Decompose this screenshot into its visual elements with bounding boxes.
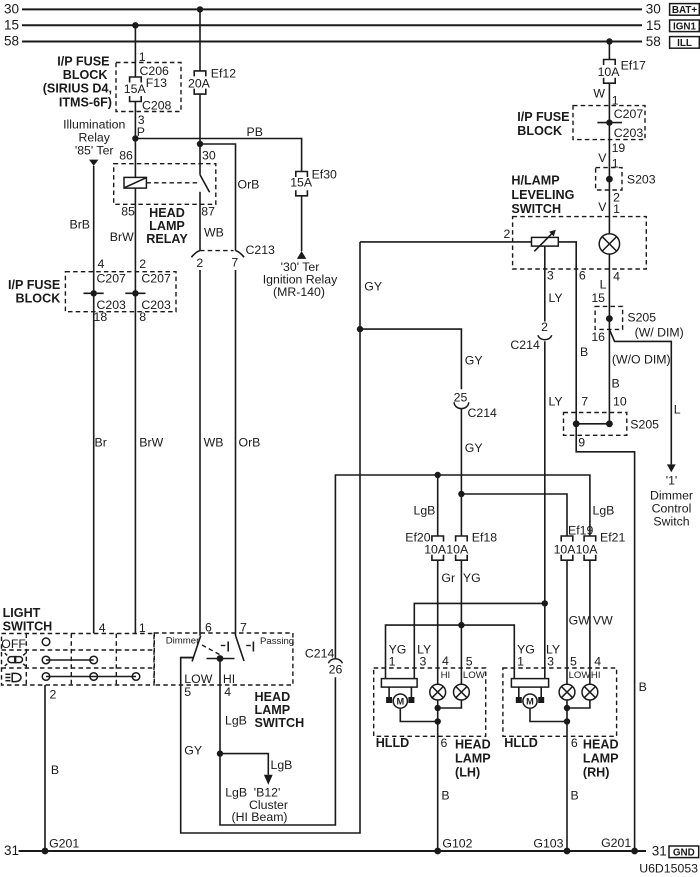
lamp LH LOW xyxy=(454,684,470,700)
svg-text:19: 19 xyxy=(612,141,626,155)
node BAT+ xyxy=(670,4,700,16)
wire Ef12 to relay pin 30 xyxy=(199,94,201,175)
svg-text:LOW: LOW xyxy=(569,670,592,681)
svg-text:Ef30: Ef30 xyxy=(312,167,337,181)
svg-text:Dimmer: Dimmer xyxy=(166,635,200,646)
svg-text:LY: LY xyxy=(549,395,563,409)
splice S203 xyxy=(596,168,656,190)
svg-text:B: B xyxy=(580,345,588,359)
svg-text:Control: Control xyxy=(652,502,692,516)
svg-text:30: 30 xyxy=(202,148,216,162)
wire LY C214-2 to lamps pin 3 xyxy=(545,291,563,679)
svg-text:V: V xyxy=(598,200,607,214)
bus 15 xyxy=(4,17,661,32)
svg-text:C207: C207 xyxy=(614,107,644,121)
wire LgB to B12 cluster xyxy=(220,754,292,775)
svg-text:LY: LY xyxy=(549,291,563,305)
svg-text:Ef12: Ef12 xyxy=(211,67,236,81)
svg-text:F13: F13 xyxy=(146,76,167,90)
I/P fuse block (left) dashed box xyxy=(8,272,176,312)
svg-text:PB: PB xyxy=(247,125,263,139)
svg-text:BrW: BrW xyxy=(139,436,163,450)
h/lamp leveling switch box xyxy=(503,217,646,284)
svg-text:(MR-140): (MR-140) xyxy=(273,285,325,299)
svg-text:LAMP: LAMP xyxy=(583,752,619,766)
svg-text:G201: G201 xyxy=(49,837,79,851)
node P junction xyxy=(132,135,138,141)
fuse Ef17 10A xyxy=(598,59,646,84)
svg-text:IGN1: IGN1 xyxy=(673,21,697,32)
svg-text:G103: G103 xyxy=(533,837,563,851)
lamp leveling illumination xyxy=(599,234,619,254)
svg-text:BLOCK: BLOCK xyxy=(16,292,61,306)
svg-text:(HI Beam): (HI Beam) xyxy=(232,810,288,824)
I/P fuse block (right) dashed box xyxy=(517,106,645,140)
svg-text:(LH): (LH) xyxy=(455,765,480,779)
wire B S205 to S205 pin 10 (W/O DIM) xyxy=(609,319,670,424)
svg-text:H/LAMP: H/LAMP xyxy=(511,174,559,188)
labels LOW HI 5 4 xyxy=(184,672,235,699)
svg-text:2: 2 xyxy=(541,320,548,334)
svg-text:15: 15 xyxy=(4,17,19,32)
dimmer switch blade xyxy=(192,636,201,662)
svg-text:W: W xyxy=(593,86,605,100)
svg-text:86: 86 xyxy=(119,148,133,162)
svg-text:20A: 20A xyxy=(188,76,211,90)
connector C214 pin 2 xyxy=(510,320,551,352)
light switch row parking contacts xyxy=(42,656,97,664)
svg-text:C203: C203 xyxy=(614,126,644,140)
wire L lamp to S205 xyxy=(591,254,609,319)
svg-text:4: 4 xyxy=(224,685,231,699)
wire V S203 to leveling switch xyxy=(598,179,620,234)
node GY branch xyxy=(357,326,363,332)
svg-text:2: 2 xyxy=(503,227,510,241)
svg-text:RELAY: RELAY xyxy=(146,232,188,246)
svg-text:BLOCK: BLOCK xyxy=(63,68,108,82)
head lamp LH box xyxy=(374,668,491,779)
connector C207/C203 pin 4-18 xyxy=(84,257,127,324)
svg-text:GND: GND xyxy=(673,847,695,858)
wire GW Ef19 to RH LOW lamp xyxy=(567,560,590,684)
wire Ef30 to ignition relay arrow xyxy=(301,196,303,251)
wire YG to motor pins 1 xyxy=(386,625,515,679)
connector C214 pin 25 xyxy=(454,390,497,419)
wire OrB C213 to passing xyxy=(236,270,261,636)
wire BrB illumination to C207 xyxy=(70,166,94,291)
lamp RH HI xyxy=(582,684,598,700)
svg-text:GY: GY xyxy=(364,279,382,293)
wire LH lamp commons to pin 6 xyxy=(435,700,462,851)
svg-text:5: 5 xyxy=(570,654,577,668)
svg-text:31: 31 xyxy=(4,843,19,858)
svg-text:L: L xyxy=(674,403,681,417)
svg-text:(W/O DIM): (W/O DIM) xyxy=(612,353,671,367)
HLLD motor RH xyxy=(511,679,548,709)
svg-text:C207: C207 xyxy=(97,271,127,285)
svg-text:G201: G201 xyxy=(601,836,631,850)
svg-text:Ef21: Ef21 xyxy=(600,530,625,544)
wire low beam to Ef19 xyxy=(461,494,567,536)
wire GY C214-25 down xyxy=(461,408,482,494)
svg-text:BLOCK: BLOCK xyxy=(517,124,562,138)
relay contact blade 30-87 xyxy=(200,175,210,251)
svg-text:3: 3 xyxy=(547,654,554,668)
svg-text:16: 16 xyxy=(591,330,605,344)
wire 58-bus to fuse Ef17 xyxy=(606,38,612,59)
svg-text:Illumination: Illumination xyxy=(63,117,125,131)
svg-text:10A: 10A xyxy=(576,542,599,556)
svg-text:1: 1 xyxy=(613,202,620,216)
wire YG Ef18 to lamps pin 1/5 xyxy=(461,560,480,684)
label '1' Dimmer Control Switch xyxy=(650,474,693,529)
node OrB branch junction xyxy=(197,141,203,147)
connector C214 pin 26 xyxy=(305,646,343,676)
svg-text:6: 6 xyxy=(205,621,212,635)
svg-text:S203: S203 xyxy=(627,172,656,186)
wire motor RH to pin 6 xyxy=(530,709,567,722)
passing contact mark xyxy=(246,642,253,652)
svg-text:LOW: LOW xyxy=(463,670,486,681)
wire Br fuse block to light switch pin 4 xyxy=(94,291,107,634)
light switch dashed grid xyxy=(2,634,155,686)
svg-text:6: 6 xyxy=(441,736,448,750)
fuse Ef18 10A xyxy=(446,530,497,560)
svg-text:4: 4 xyxy=(99,621,106,635)
svg-text:15: 15 xyxy=(591,291,605,305)
svg-text:LgB: LgB xyxy=(414,504,436,518)
svg-text:HEAD: HEAD xyxy=(149,206,185,220)
svg-text:BAT+: BAT+ xyxy=(672,5,698,16)
ground G201 right xyxy=(601,836,638,854)
svg-text:HI: HI xyxy=(591,670,601,681)
svg-text:C213: C213 xyxy=(246,243,276,257)
svg-text:30: 30 xyxy=(646,2,661,17)
svg-text:HI: HI xyxy=(441,670,451,681)
svg-text:18: 18 xyxy=(94,310,108,324)
svg-text:3: 3 xyxy=(420,654,427,668)
svg-text:Passing: Passing xyxy=(260,636,294,647)
svg-text:B: B xyxy=(441,788,449,802)
potentiometer leveling xyxy=(532,230,559,252)
svg-text:LgB: LgB xyxy=(225,714,247,728)
svg-text:OrB: OrB xyxy=(238,178,260,192)
svg-text:4: 4 xyxy=(442,654,449,668)
svg-text:'1': '1' xyxy=(666,474,678,488)
wire GY light switch to pin 2 xyxy=(360,241,532,243)
svg-text:C214: C214 xyxy=(468,406,498,420)
dimmer HI contact mark xyxy=(221,642,228,652)
wire light switch pin 2 to G201 xyxy=(45,685,59,851)
svg-text:SWITCH: SWITCH xyxy=(511,202,561,216)
head lamp switch box xyxy=(154,621,294,685)
svg-text:LAMP: LAMP xyxy=(455,752,491,766)
svg-text:S205: S205 xyxy=(630,417,659,431)
HLLD motor LH xyxy=(381,679,417,709)
arrow to '1' dimmer control switch xyxy=(667,464,676,472)
icon parking lamps xyxy=(5,653,26,666)
wire WB C213 to dimmer xyxy=(200,270,223,636)
head lamp LH pin labels xyxy=(389,643,486,682)
wire 15-bus to fuse F13 xyxy=(132,22,146,77)
svg-text:YG: YG xyxy=(463,571,481,585)
svg-text:7: 7 xyxy=(240,621,247,635)
svg-text:C214: C214 xyxy=(510,338,540,352)
svg-text:1: 1 xyxy=(139,621,146,635)
wire pot pin 3 xyxy=(544,246,546,321)
connector C207/C203 pin 2-8 xyxy=(125,257,171,324)
svg-text:9: 9 xyxy=(578,436,585,450)
svg-text:U6D15053: U6D15053 xyxy=(639,861,698,875)
splice S205 (W/ DIM) xyxy=(591,306,683,344)
relay mechanical link (dashed) xyxy=(146,182,199,184)
fuse Ef20 10A xyxy=(405,530,447,560)
svg-text:1: 1 xyxy=(517,654,524,668)
svg-text:B: B xyxy=(639,680,647,694)
wire VW Ef21 to RH HI lamp xyxy=(590,560,613,684)
lamp RH LOW xyxy=(559,684,575,700)
svg-text:4: 4 xyxy=(98,257,105,271)
svg-text:ITMS-6F): ITMS-6F) xyxy=(59,95,112,109)
arrow to B12 cluster xyxy=(264,775,273,785)
svg-text:GY: GY xyxy=(465,354,483,368)
svg-text:30: 30 xyxy=(4,1,19,16)
wire Ef18 feed xyxy=(460,494,462,536)
label '30' Ter Ignition Relay (MR-140) xyxy=(263,260,338,299)
svg-text:Ef17: Ef17 xyxy=(621,59,646,73)
ground G201 left xyxy=(42,837,80,855)
svg-text:15A: 15A xyxy=(290,175,313,189)
head lamp RH pin labels xyxy=(517,643,601,682)
svg-text:Ef18: Ef18 xyxy=(472,530,497,544)
svg-text:SWITCH: SWITCH xyxy=(3,620,53,634)
wire GY loop: low contact to leveling pin 2 xyxy=(181,242,382,833)
label I/P FUSE BLOCK (SIRIUS D4, ITMS-6F) xyxy=(43,55,112,110)
svg-text:OrB: OrB xyxy=(239,436,261,450)
head lamp relay box xyxy=(114,148,216,246)
lamp LH HI xyxy=(430,684,446,700)
svg-text:V: V xyxy=(598,151,607,165)
svg-text:LIGHT: LIGHT xyxy=(3,606,41,620)
svg-text:2: 2 xyxy=(50,687,57,701)
svg-text:M: M xyxy=(526,697,534,707)
svg-text:BrW: BrW xyxy=(110,230,134,244)
svg-text:87: 87 xyxy=(201,205,215,219)
svg-text:58: 58 xyxy=(4,34,19,49)
bus 30 xyxy=(4,1,661,16)
node GND xyxy=(669,846,699,858)
svg-text:GY: GY xyxy=(465,441,483,455)
wire PB xyxy=(135,125,301,172)
svg-text:10: 10 xyxy=(613,395,627,409)
ground G102 xyxy=(434,837,472,855)
light switch row OFF contact xyxy=(42,638,50,646)
bus 58 xyxy=(4,34,661,50)
svg-text:25: 25 xyxy=(454,390,468,404)
svg-text:15A: 15A xyxy=(124,82,147,96)
svg-text:LAMP: LAMP xyxy=(255,703,291,717)
node IGN1 xyxy=(670,20,700,32)
svg-text:SWITCH: SWITCH xyxy=(255,716,305,730)
svg-text:Switch: Switch xyxy=(653,515,689,529)
svg-text:Gr: Gr xyxy=(441,571,455,585)
wire RH lamp commons to pin 6 xyxy=(564,700,590,851)
svg-text:C207: C207 xyxy=(141,271,171,285)
light switch pin labels 4 and 1 xyxy=(99,621,146,635)
svg-text:Dimmer: Dimmer xyxy=(650,489,693,503)
svg-text:L: L xyxy=(600,278,607,292)
svg-text:LEVELING: LEVELING xyxy=(511,188,574,202)
wire 30-bus to fuse Ef12 xyxy=(197,6,203,71)
svg-text:C214: C214 xyxy=(305,646,335,660)
wire HI beam bus xyxy=(335,475,590,659)
svg-text:HLLD: HLLD xyxy=(376,736,410,750)
svg-text:58: 58 xyxy=(646,34,661,49)
svg-text:HEAD: HEAD xyxy=(455,737,491,751)
label LIGHT SWITCH xyxy=(3,606,53,634)
svg-text:GW: GW xyxy=(569,614,591,628)
wire pot pin 6 xyxy=(558,242,576,424)
arrow from Illumination Relay xyxy=(89,160,98,166)
svg-text:'85' Ter: '85' Ter xyxy=(75,144,114,158)
svg-text:6: 6 xyxy=(571,736,578,750)
svg-text:4: 4 xyxy=(613,269,620,283)
svg-text:WB: WB xyxy=(204,436,224,450)
relay coil xyxy=(124,139,146,189)
svg-text:HLLD: HLLD xyxy=(504,736,538,750)
wire fuse F13 to node P xyxy=(135,102,145,140)
svg-text:(SIRIUS D4,: (SIRIUS D4, xyxy=(43,82,112,96)
fuse Ef19 10A xyxy=(554,523,594,560)
svg-text:7: 7 xyxy=(581,395,588,409)
svg-text:7: 7 xyxy=(231,256,238,270)
wire B S205 pin 9 to G201 xyxy=(576,424,634,851)
node Ef20 feed xyxy=(435,472,441,536)
svg-text:10A: 10A xyxy=(554,542,577,556)
ground G103 xyxy=(533,837,570,855)
wire Gr Ef20 to LH HI lamp xyxy=(438,560,455,684)
svg-text:2: 2 xyxy=(139,257,146,271)
svg-text:I/P FUSE: I/P FUSE xyxy=(57,55,109,69)
svg-text:6: 6 xyxy=(579,268,586,282)
svg-text:5: 5 xyxy=(466,654,473,668)
svg-text:(W/ DIM): (W/ DIM) xyxy=(635,326,684,340)
svg-text:LgB: LgB xyxy=(271,758,293,772)
label HEAD LAMP SWITCH xyxy=(255,690,305,730)
svg-text:GY: GY xyxy=(184,744,202,758)
svg-text:B: B xyxy=(571,788,579,802)
svg-text:Br: Br xyxy=(95,436,107,450)
node B12 branch xyxy=(217,750,223,756)
svg-text:HEAD: HEAD xyxy=(583,737,619,751)
svg-text:26: 26 xyxy=(329,663,343,677)
svg-text:(RH): (RH) xyxy=(583,765,610,779)
svg-text:10A: 10A xyxy=(424,542,447,556)
wire W Ef17 to C207 xyxy=(593,83,618,122)
arrow to '30' Ter Ignition Relay xyxy=(297,251,306,259)
fuse Ef12 20A xyxy=(188,67,236,95)
wire V C203 to S203 xyxy=(598,123,625,180)
node GY low-beam split xyxy=(458,491,464,497)
svg-text:BrB: BrB xyxy=(70,217,91,231)
icon headlamp xyxy=(5,673,21,681)
svg-text:4: 4 xyxy=(594,654,601,668)
svg-text:OFF: OFF xyxy=(1,637,26,651)
svg-text:C208: C208 xyxy=(142,98,172,112)
wire L to dimmer control switch (W/ DIM) xyxy=(609,330,680,465)
passing switch blade xyxy=(236,636,245,662)
svg-text:85: 85 xyxy=(121,205,135,219)
fuse Ef30 15A xyxy=(290,167,337,196)
fuse Ef21 10A xyxy=(576,530,626,560)
wire LgB HI: dimmer to C214 pin 26 xyxy=(220,659,335,826)
svg-text:8: 8 xyxy=(139,310,146,324)
svg-text:B: B xyxy=(51,763,59,777)
svg-text:10A: 10A xyxy=(598,65,621,79)
svg-text:3: 3 xyxy=(547,268,554,282)
svg-text:2: 2 xyxy=(196,256,203,270)
wire OrB branch to C213 xyxy=(200,144,259,251)
I/P fuse block (SIRIUS) dashed box xyxy=(116,63,181,112)
wire motor LH to pin 6 xyxy=(400,709,437,722)
wire BrW relay 85 down xyxy=(110,188,136,633)
connector C213 xyxy=(191,243,275,270)
svg-text:31: 31 xyxy=(652,843,667,858)
svg-text:1: 1 xyxy=(389,654,396,668)
svg-text:5: 5 xyxy=(184,685,191,699)
svg-text:M: M xyxy=(396,697,404,707)
label H/LAMP LEVELING SWITCH xyxy=(511,174,574,216)
svg-text:I/P FUSE: I/P FUSE xyxy=(517,110,569,124)
svg-text:1: 1 xyxy=(612,157,619,171)
svg-text:G102: G102 xyxy=(442,837,472,851)
svg-text:B: B xyxy=(612,376,620,390)
svg-text:S205: S205 xyxy=(627,310,656,324)
svg-text:VW: VW xyxy=(593,614,613,628)
ground bus 31 xyxy=(4,843,667,859)
dimmer blade alternate position (dashed) xyxy=(202,645,220,655)
svg-text:LAMP: LAMP xyxy=(149,219,185,233)
head lamp switch LOW contact xyxy=(181,657,193,659)
splice S205 (lower) xyxy=(564,413,660,450)
label Illumination Relay '85' Ter xyxy=(63,117,125,157)
svg-text:WB: WB xyxy=(204,226,224,240)
fuse F13 15A xyxy=(124,64,172,113)
head lamp switch HI contact bar xyxy=(207,655,235,662)
svg-text:Relay: Relay xyxy=(78,131,110,145)
svg-text:ILL: ILL xyxy=(677,38,692,49)
head lamp RH box xyxy=(503,668,619,779)
wire LY to LH pin 3 xyxy=(414,603,545,678)
svg-text:HEAD: HEAD xyxy=(255,690,291,704)
label LgB 'B12' Cluster (HI Beam) xyxy=(225,786,288,824)
wire GY branch to C214 pin 25 xyxy=(360,329,483,389)
svg-text:I/P FUSE: I/P FUSE xyxy=(8,278,60,292)
node ILL xyxy=(670,37,700,49)
node YG split xyxy=(458,622,464,628)
svg-text:LgB: LgB xyxy=(225,786,247,800)
svg-text:10A: 10A xyxy=(446,542,469,556)
light switch row head contacts xyxy=(42,673,140,681)
connector C207/C203 pin 19 xyxy=(597,107,643,140)
svg-text:15: 15 xyxy=(646,18,661,33)
node LY split xyxy=(542,600,548,606)
svg-text:LgB: LgB xyxy=(593,504,615,518)
